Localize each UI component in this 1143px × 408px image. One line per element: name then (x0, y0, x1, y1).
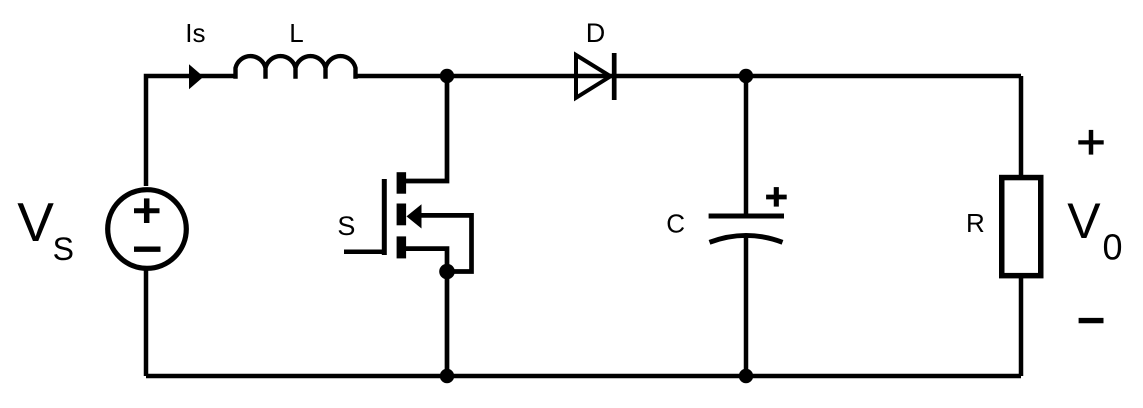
wire bottom rail (146, 374, 1021, 379)
voltage source VS circle (108, 190, 187, 269)
diode triangle anode (576, 55, 611, 98)
capacitor bottom curved plate (710, 235, 783, 242)
svg-text:S: S (337, 211, 355, 241)
svg-text:C: C (666, 209, 685, 239)
node junction dot top right (output node) (739, 69, 753, 83)
body lead wire (418, 215, 472, 271)
node junction dot top left (drain node) (440, 69, 454, 83)
inductor L (236, 56, 356, 79)
gate bar (382, 179, 387, 255)
source-body junction dot (439, 264, 455, 280)
voltage source minus sign (134, 246, 161, 251)
output plus sign (1078, 130, 1103, 155)
svg-text:Is: Is (185, 18, 205, 48)
svg-text:L: L (289, 18, 303, 48)
svg-text:V: V (17, 191, 54, 253)
source lead wire (404, 249, 447, 376)
capacitor plus sign (766, 195, 787, 200)
wire left vertical below source (144, 270, 149, 376)
svg-text:V: V (1067, 193, 1101, 249)
svg-text:D: D (586, 18, 606, 48)
node junction dot bottom right (739, 369, 753, 383)
source stub (397, 236, 407, 258)
capacitor C (709, 187, 787, 242)
transistor S (MOSFET) (344, 76, 472, 376)
output minus sign (1079, 318, 1104, 323)
wire capacitor branch bottom (744, 236, 749, 376)
node junction dot bottom left (440, 369, 454, 383)
body arrow (407, 204, 422, 228)
wire capacitor branch top (744, 76, 749, 216)
diode cathode bar (612, 53, 617, 100)
svg-text:0: 0 (1103, 227, 1123, 268)
gate lead wire (344, 250, 384, 255)
capacitor top plate (709, 214, 784, 219)
body stub (397, 204, 407, 226)
resistor R (1002, 178, 1041, 276)
wire top from inductor to right side (354, 74, 1021, 79)
wire top from source to inductor (146, 76, 237, 186)
drain lead wire (404, 76, 447, 181)
voltage source plus sign (134, 198, 160, 223)
wire right vertical bottom (1019, 276, 1024, 376)
diode D (576, 53, 614, 100)
wire right vertical top (1019, 76, 1024, 177)
current arrow Is (189, 64, 204, 89)
svg-text:R: R (966, 208, 985, 238)
svg-text:S: S (53, 231, 74, 267)
drain stub (397, 172, 407, 194)
